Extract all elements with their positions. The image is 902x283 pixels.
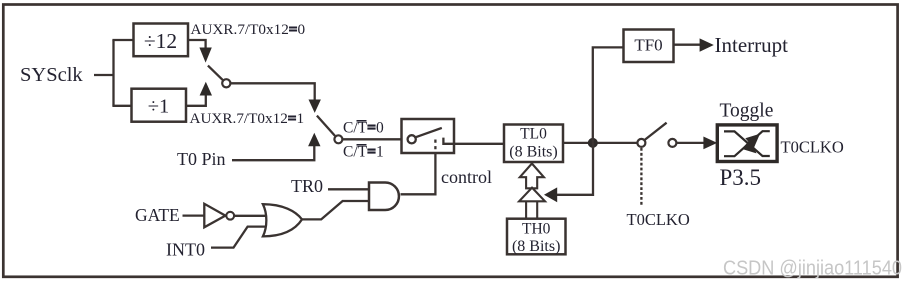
svg-text:T0CLKO: T0CLKO [781, 138, 844, 157]
overbar of T in C/T=1 [357, 144, 367, 146]
wire T0 Pin [232, 146, 314, 161]
svg-text:AUXR.7/T0x12=0: AUXR.7/T0x12=0 [191, 21, 306, 38]
block arrow triangle lower [519, 188, 545, 202]
arrowhead div1 up [200, 82, 212, 96]
block arrow shaft right [536, 201, 538, 218]
svg-text:control: control [441, 167, 492, 187]
wire control from AND gate [401, 153, 436, 194]
svg-text:GATE: GATE [135, 205, 180, 225]
wire branch vertical [112, 40, 114, 106]
toggle arrowhead up-right [745, 134, 760, 148]
dashed control link inside box [434, 140, 436, 153]
arrowhead div12 down [199, 48, 211, 63]
wire INT0 to OR [211, 227, 267, 248]
block arrow shaft left [525, 201, 527, 218]
control switch box [402, 119, 455, 153]
toggle crossover ascending path [724, 131, 770, 156]
flag box TF0 [624, 30, 674, 63]
svg-text:P3.5: P3.5 [720, 165, 762, 190]
switch SW1 contact circle [222, 79, 230, 87]
arrowhead into toggle [703, 137, 717, 150]
wire TF0 output [674, 44, 701, 46]
toggle crossover descending path [724, 131, 770, 156]
wire to div1 [112, 105, 132, 107]
NOT gate bubble [226, 212, 234, 220]
divider box DIV12 [134, 24, 189, 57]
svg-text:TR0: TR0 [291, 176, 323, 196]
wire SW1 output [230, 83, 314, 100]
svg-text:÷1: ÷1 [148, 96, 170, 118]
switch SW3 right contact circle [668, 139, 676, 147]
svg-text:INT0: INT0 [166, 239, 205, 259]
switch SW2 arm [317, 116, 335, 136]
dashed line T0CLKO enable [640, 148, 642, 205]
svg-text:TF0: TF0 [634, 36, 662, 55]
arrowhead SW2 down [309, 100, 321, 113]
svg-text:SYSclk: SYSclk [20, 64, 83, 86]
svg-text:T0 Pin: T0 Pin [177, 149, 226, 169]
divider box DIV1 [132, 89, 187, 122]
toggle box P3.5 [717, 125, 777, 162]
wire feedback junction to TH0 arrow [557, 143, 594, 195]
wire SW2 to control box [342, 138, 407, 140]
wire div12 output [188, 40, 206, 49]
switch SW1 arm [208, 66, 223, 81]
wire NOT to OR [234, 215, 267, 217]
svg-text:÷12: ÷12 [144, 29, 177, 53]
overbar of T in C/T=0 [357, 120, 367, 122]
control box switch arm [415, 128, 441, 137]
junction dot [588, 138, 598, 148]
svg-text:CSDN @jinjiao111540: CSDN @jinjiao111540 [723, 258, 902, 280]
wire TR0 to AND [328, 188, 369, 190]
svg-text:AUXR.7/T0x12=1: AUXR.7/T0x12=1 [190, 110, 305, 127]
svg-text:T0CLKO: T0CLKO [627, 210, 690, 229]
wire to div12 [112, 39, 134, 41]
register box TL0 [504, 125, 563, 163]
wire OR output to AND [302, 201, 369, 219]
wire SYSclk stub [94, 74, 114, 76]
svg-text:Toggle: Toggle [720, 101, 774, 122]
switch SW3 arm [645, 123, 667, 140]
wire div1 output [186, 95, 206, 106]
wire junction to TF0 [593, 47, 624, 142]
switch SW3 left contact circle [637, 139, 645, 147]
control box fixed contact L [443, 138, 454, 144]
arrowhead T0 Pin up [308, 133, 320, 147]
wire GATE to NOT [183, 214, 205, 216]
svg-text:(8 Bits): (8 Bits) [509, 144, 557, 161]
svg-text:TH0: TH0 [522, 221, 551, 238]
svg-text:Interrupt: Interrupt [715, 33, 789, 57]
svg-text:C/T=1: C/T=1 [343, 143, 384, 160]
register box TH0 [507, 219, 566, 255]
wire TL0 output [563, 142, 637, 144]
svg-text:(8 Bits): (8 Bits) [512, 238, 560, 255]
toggle arrowhead down-right [742, 139, 757, 153]
wire SW3 to toggle [677, 142, 705, 144]
svg-text:C/T=0: C/T=0 [343, 119, 384, 136]
block arrow TH0 to TL0 upper [520, 164, 544, 189]
AND gate [369, 183, 399, 211]
svg-text:TL0: TL0 [520, 125, 547, 142]
arrowhead to Interrupt [700, 38, 714, 51]
wire control box to TL0 [454, 143, 504, 145]
OR gate [263, 204, 302, 236]
switch SW2 contact circle [334, 135, 342, 143]
control box contact circle [408, 135, 416, 143]
arrowhead feedback left [544, 187, 557, 202]
NOT gate triangle [204, 204, 225, 228]
